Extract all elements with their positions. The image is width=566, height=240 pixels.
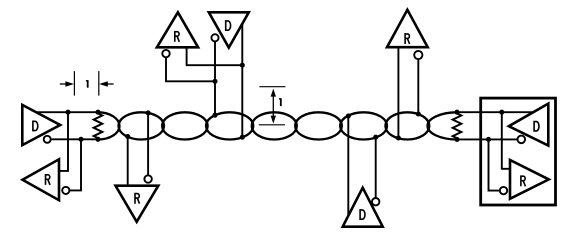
twisted-pair end loop (right) (428, 112, 457, 139)
wire D3 noninverting output stub to top line (347, 116, 349, 216)
driver D2 (top middle) (209, 12, 249, 47)
twisted-pair twist loop 5 (252, 112, 297, 139)
twisted-pair twist loop 3 (162, 112, 207, 139)
junction of R3 and D2 noninverted signals (240, 63, 245, 68)
wire R1 noninverting input to top line (59, 112, 68, 171)
inverting-input bubble of R3 (162, 50, 169, 57)
twisted-pair twist loop 4 (206, 112, 253, 139)
wire D1 noninverting output to node A (top) (36, 111, 98, 113)
inverting-input bubble of R5 (500, 187, 507, 194)
wire R5 inverting input to bottom line (489, 139, 500, 190)
wire D2 inverting output stub to top line (214, 41, 216, 115)
termination resistor RT1 (left) (94, 112, 103, 139)
junction on top line at R5 tap (499, 110, 504, 115)
termination resistor RT2 (right) (453, 112, 462, 139)
driver D1 (left transceiver) (22, 105, 60, 145)
wire R1 inverting input to bottom line (69, 139, 81, 190)
inverting-input bubble of R1 (62, 187, 69, 194)
wire R5 noninverting input to top line (502, 112, 510, 169)
wire D3 inverting output stub to bottom line (375, 137, 377, 198)
inverting-input bubble of R4 (414, 51, 422, 59)
twisted-pair twist loop 6 (295, 112, 342, 139)
junction on top line at R4 tap (416, 111, 421, 116)
wire R4 noninverting input stub to bottom line (397, 47, 399, 138)
wire R3 inverting input to driver-D2 top node (166, 57, 215, 81)
wire D1 inverting output to node B (bottom) (51, 138, 99, 140)
driver D4 (right transceiver) (509, 104, 549, 146)
transceiver enclosure box (right) (481, 98, 556, 205)
dimension label l (stub spacing) (86, 80, 89, 88)
dimension tick bottom (stub length l) (259, 124, 285, 126)
wire top line right end (457, 111, 533, 113)
wire R3 noninverting input to driver-D2 bottom node (187, 47, 243, 65)
junction on bottom line at D2 tap (240, 135, 245, 140)
receiver R3 (top middle) (157, 12, 198, 47)
receiver R5 (right transceiver) (510, 160, 549, 199)
junction on top line at R2 tap (146, 110, 151, 115)
wire R4 inverting input stub to top line (417, 59, 419, 114)
inverting-input bubble of R2 (144, 175, 151, 182)
dimension tick left (stub spacing l) (73, 71, 75, 96)
dimension double arrow (stub length) (271, 89, 276, 124)
junction on bottom line at R4 tap (396, 135, 401, 140)
receiver R4 (top right) (387, 10, 428, 47)
dimension tick top (stub length l) (259, 86, 285, 88)
junction on top line at D3 tap (346, 113, 351, 118)
dimension label l (stub length) (279, 98, 282, 106)
wire bottom line right end (457, 138, 518, 140)
junction of R3 and D2 inverted signals (212, 79, 217, 84)
inverting-output bubble of D2 (211, 34, 218, 41)
wire R2 noninverting input stub to bottom line (127, 137, 129, 186)
dimension tick right (stub spacing l) (98, 71, 100, 96)
junction on bottom line at D3 tap (373, 135, 378, 140)
junction on bottom line at R5 tap (486, 137, 491, 142)
node: RT1 bottom / line start (95, 137, 100, 142)
twisted-pair twist loop 8 (385, 112, 429, 139)
inverting-output bubble of D3 (372, 198, 379, 205)
junction on top line at R1 tap (65, 110, 70, 115)
twisted-pair twist loop 7 (340, 112, 387, 139)
junction on bottom line at R1 tap (78, 137, 83, 142)
node: RT2 bottom / line end (454, 137, 459, 142)
junction on bottom line at R2 tap (125, 134, 130, 139)
receiver R2 (bottom left) (116, 186, 159, 222)
dimension arrow right (99, 81, 113, 86)
node: RT2 top / line end (454, 110, 459, 115)
driver D3 (bottom middle) (343, 188, 383, 227)
dimension arrow left (60, 81, 74, 86)
receiver R1 (left transceiver) (23, 159, 60, 200)
inverting-output bubble of D4 (518, 136, 526, 144)
wire R2 inverting input stub to top line (147, 113, 149, 175)
twisted-pair twist loop 2 (119, 112, 164, 139)
wire D2 noninverting output stub to bottom line (241, 24, 243, 137)
junction on top line at D2 tap (212, 113, 217, 118)
twisted-pair end loop (left) (98, 112, 119, 139)
inverting-output bubble of D1 (44, 136, 51, 143)
node: RT1 top / line start (95, 110, 100, 115)
